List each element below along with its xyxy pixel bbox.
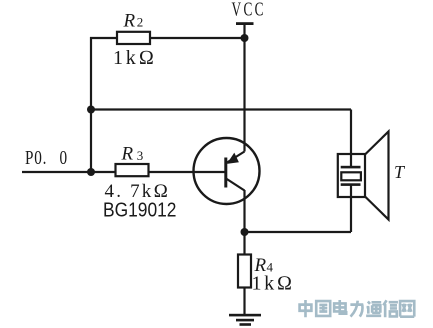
speaker internal bottom plate [341, 183, 361, 186]
wire R4 to ground [243, 288, 245, 316]
wire collector vertical [243, 190, 245, 233]
speaker internal top lead [350, 154, 352, 167]
svg-text:R: R [123, 11, 136, 32]
char 中 [300, 300, 312, 317]
watermark 中国电力通信网 drawn as paths [300, 300, 415, 317]
power VCC bar [236, 22, 254, 25]
resistor R2 body [117, 32, 150, 44]
transistor Q1 circle [194, 138, 260, 204]
char 国 [316, 301, 330, 316]
speaker T body [338, 154, 365, 197]
wire R4 top [243, 232, 245, 255]
resistor R3 body [116, 164, 149, 176]
speaker cone [365, 132, 389, 220]
wire left vertical [90, 37, 92, 173]
char 网 [400, 301, 414, 317]
node junction P0.0/left vertical [87, 168, 95, 176]
resistor R4 body (vertical) [238, 255, 251, 288]
transistor Q1 collector lead [226, 179, 245, 191]
speaker internal bottom lead [350, 185, 352, 197]
svg-text:T: T [394, 162, 406, 182]
svg-text:BG19012: BG19012 [103, 198, 176, 220]
svg-text:0: 0 [60, 146, 68, 168]
wire speaker bottom vertical [350, 196, 352, 232]
speaker internal coil box [341, 172, 361, 180]
char 信 [383, 300, 398, 317]
speaker internal top plate [341, 166, 361, 169]
transistor Q1 emitter arrow (PNP, points to base) [227, 153, 239, 164]
node junction VCC/R2 [241, 34, 249, 42]
svg-text:1kΩ: 1kΩ [113, 47, 157, 69]
wire top-right horizontal to speaker [91, 108, 351, 110]
char 电 [334, 300, 346, 314]
svg-text:2: 2 [137, 15, 144, 30]
node junction collector/R4/speaker [241, 228, 249, 236]
char 力 [350, 301, 363, 317]
ground [229, 314, 261, 326]
transistor Q1 emitter lead [227, 152, 245, 163]
svg-text:3: 3 [137, 148, 144, 163]
transistor Q1 base bar [224, 158, 227, 188]
wire bottom horizontal to speaker [245, 231, 352, 233]
wire P0.0 base row horizontal [22, 171, 226, 173]
wire speaker top vertical [350, 110, 352, 157]
wire R2 row horizontal [90, 37, 245, 39]
svg-text:P0.: P0. [25, 146, 47, 168]
svg-text:1kΩ: 1kΩ [252, 272, 295, 294]
wire VCC vertical (bar to emitter) [243, 24, 245, 152]
node junction left/speaker wire [87, 106, 95, 114]
svg-text:R: R [121, 144, 134, 165]
svg-text:VCC: VCC [232, 0, 266, 20]
char 通 [366, 302, 381, 316]
